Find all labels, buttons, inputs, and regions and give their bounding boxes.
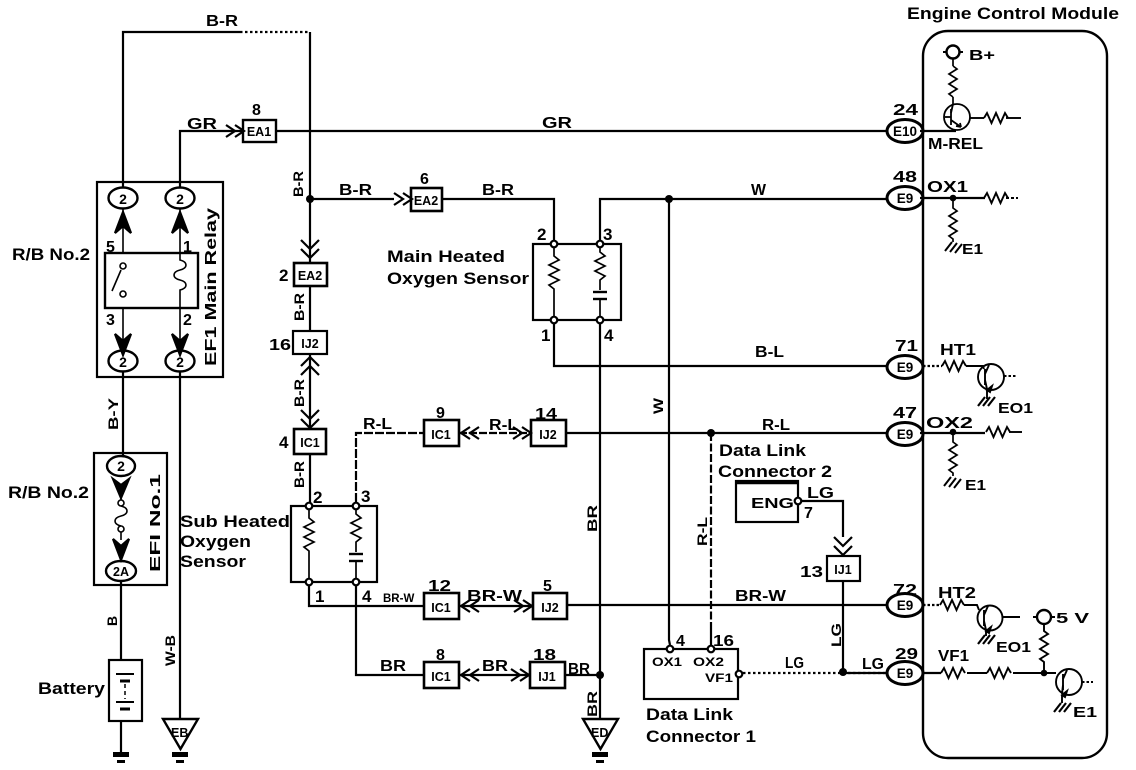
svg-text:IJ2: IJ2 <box>301 337 318 351</box>
svg-text:2: 2 <box>279 266 288 285</box>
relay switch <box>112 263 126 297</box>
DLC1 pin VF1 <box>705 671 742 685</box>
svg-text:2: 2 <box>537 225 546 244</box>
wire VF1 mid <box>967 672 987 674</box>
svg-text:R-L: R-L <box>489 417 518 434</box>
wire BR-W to ECM <box>567 604 888 606</box>
connector IJ2 pin 5 <box>533 578 567 619</box>
wire B-L main sensor pin1 to ECM <box>554 323 888 366</box>
svg-text:B-R: B-R <box>291 461 307 488</box>
relay pin oval 2 bottom-left <box>109 351 138 372</box>
svg-text:5 V: 5 V <box>1056 610 1089 627</box>
wire LG junction to ECM <box>843 672 888 674</box>
svg-text:2: 2 <box>176 191 184 207</box>
svg-text:EA2: EA2 <box>298 269 322 283</box>
svg-text:E1: E1 <box>965 477 986 494</box>
svg-text:R/B No.2: R/B No.2 <box>8 483 89 502</box>
ENG pin 7 <box>795 498 813 522</box>
svg-text:16: 16 <box>713 633 734 650</box>
svg-text:Oxygen Sensor: Oxygen Sensor <box>387 269 529 288</box>
connector IJ2 pin 14 <box>531 406 566 446</box>
ECM connector E9 pin 48 <box>887 169 923 210</box>
connector EA2 pin 6 <box>411 171 442 211</box>
connector arrows into EA2-6 <box>394 193 412 205</box>
svg-text:LG: LG <box>862 656 884 673</box>
junction dot OX2 <box>950 429 957 436</box>
svg-text:4: 4 <box>362 587 372 606</box>
svg-text:18: 18 <box>533 647 556 664</box>
data link connector 1 box <box>644 649 738 699</box>
svg-text:OX2: OX2 <box>693 655 724 669</box>
wire GR to ECM <box>276 130 888 132</box>
ground below EB <box>172 752 188 763</box>
svg-text:2: 2 <box>119 191 127 207</box>
svg-text:4: 4 <box>604 326 614 345</box>
arrow down into bottom-left oval <box>115 334 131 355</box>
svg-text:IJ2: IJ2 <box>539 428 556 442</box>
wire B-R EA2 to IJ2 <box>309 286 311 331</box>
ground triangle ED <box>583 719 618 749</box>
svg-text:OX1: OX1 <box>652 655 682 669</box>
svg-text:BR-W: BR-W <box>467 588 523 605</box>
label Main Heated Oxygen Sensor <box>387 247 529 288</box>
terminal B+ <box>943 46 995 65</box>
svg-text:E9: E9 <box>897 427 914 442</box>
svg-text:6: 6 <box>420 171 429 188</box>
svg-text:EFI No.1: EFI No.1 <box>147 474 164 572</box>
svg-text:W: W <box>650 397 666 414</box>
transistor HT1 <box>978 364 1004 399</box>
connector EA1 pin 8 <box>243 102 276 142</box>
wire BR-W sub pin1 to IC1 <box>309 585 424 606</box>
svg-text:Oxygen: Oxygen <box>180 532 251 551</box>
svg-text:B-Y: B-Y <box>105 397 121 430</box>
label Data Link Connector 1 <box>646 705 756 746</box>
wire OX1 <box>920 197 985 199</box>
connector arrows up below IJ2 <box>301 357 319 375</box>
relay block R/B No.2 outer box <box>97 182 223 377</box>
connector arrows down into IJ1-13 <box>834 537 852 555</box>
DLC1 pin 4 <box>652 633 685 669</box>
svg-text:R-L: R-L <box>363 416 392 433</box>
resistor 5V <box>1040 624 1048 673</box>
wire BR-W between connectors <box>459 605 533 607</box>
wire VF1 to transistor <box>1013 672 1056 674</box>
svg-text:9: 9 <box>436 405 445 422</box>
svg-text:4: 4 <box>279 433 289 452</box>
svg-text:B-R: B-R <box>482 182 515 199</box>
svg-text:48: 48 <box>893 169 917 186</box>
svg-text:VF1: VF1 <box>705 671 733 685</box>
sub sensor pin 1 <box>306 579 325 606</box>
arrow up into top-left oval <box>115 212 131 233</box>
junction dot OX1 <box>950 195 957 202</box>
svg-text:BR-W: BR-W <box>383 593 414 605</box>
svg-text:1: 1 <box>315 587 324 606</box>
wire relay pin2 <box>179 308 181 350</box>
svg-text:B-L: B-L <box>755 344 784 361</box>
svg-text:EA1: EA1 <box>247 125 271 139</box>
EFI No.1 block box <box>94 453 167 585</box>
relay pin oval 2 top-right <box>166 188 195 209</box>
svg-text:EO1: EO1 <box>996 639 1031 656</box>
svg-text:ENG: ENG <box>751 495 794 512</box>
wire B-R down chain <box>309 199 311 263</box>
svg-text:Connector 2: Connector 2 <box>718 462 832 481</box>
wire relay pin3 <box>122 308 124 350</box>
svg-text:HT1: HT1 <box>940 342 976 359</box>
ECM box <box>923 31 1107 758</box>
svg-text:Data Link: Data Link <box>646 705 734 724</box>
svg-text:8: 8 <box>252 102 261 119</box>
main sensor heater resistor <box>549 248 559 317</box>
svg-text:2: 2 <box>119 354 127 370</box>
transistor HT2 <box>978 606 1003 637</box>
EFI pin oval 2A <box>106 561 136 581</box>
wire relay pin5 <box>122 209 124 253</box>
svg-text:Connector 1: Connector 1 <box>646 727 756 746</box>
EFI pin oval 2 <box>107 456 135 476</box>
wire HT1 open end <box>1004 375 1016 377</box>
svg-text:LG: LG <box>807 485 834 502</box>
ground below ED <box>592 752 608 763</box>
junction dot R-L <box>707 429 715 437</box>
svg-text:M-REL: M-REL <box>928 136 983 153</box>
svg-text:2: 2 <box>183 312 192 329</box>
resistor M-REL out <box>984 113 1008 123</box>
svg-text:2: 2 <box>176 354 184 370</box>
svg-text:IJ2: IJ2 <box>541 601 558 615</box>
resistor OX1 <box>984 193 1008 203</box>
wire HT2 emitter right <box>1002 616 1020 618</box>
svg-text:EB: EB <box>171 726 188 740</box>
svg-text:E1: E1 <box>1073 704 1097 721</box>
relay inner box <box>105 253 198 308</box>
main sensor pin 4 <box>597 317 614 345</box>
svg-text:E1: E1 <box>962 241 983 258</box>
svg-text:LG: LG <box>828 623 844 647</box>
fuse EFI No.1 <box>115 498 127 540</box>
wire HT1 <box>923 365 942 367</box>
sub sensor pin 3 <box>353 487 371 509</box>
wire LG from VF1 to ECM <box>743 672 888 674</box>
junction dot VF1 <box>1041 670 1048 677</box>
main sensor element <box>593 248 607 317</box>
svg-text:12: 12 <box>428 578 451 595</box>
wire B-R horizontal to EA2-6 <box>310 198 394 200</box>
svg-text:Data Link: Data Link <box>719 441 807 460</box>
wire BR to junction <box>565 674 600 676</box>
svg-text:B-R: B-R <box>290 171 306 197</box>
svg-text:3: 3 <box>603 225 612 244</box>
wire OX2 <box>920 432 985 434</box>
resistor HT1 <box>942 361 966 371</box>
sub sensor heater resistor <box>304 510 314 579</box>
main sensor pin 3 <box>597 225 613 247</box>
wire W main sensor pin3 to ECM <box>600 199 888 241</box>
wire B+ to resistor <box>952 58 954 66</box>
battery <box>109 660 142 721</box>
svg-text:16: 16 <box>269 337 291 354</box>
svg-text:OX1: OX1 <box>927 179 968 196</box>
connector IJ2 pin 16 <box>269 331 327 354</box>
wire B-R EA2 to main sensor pin2 <box>442 199 554 241</box>
sub sensor pin 2 <box>306 488 323 509</box>
sub sensor pin 4 <box>353 579 372 606</box>
ECM connector E9 pin 71 <box>887 338 923 379</box>
wire BR between connectors <box>459 674 530 676</box>
wire GR from relay to EA1 <box>180 131 243 187</box>
svg-text:W-B: W-B <box>162 635 178 666</box>
connector arrows into IJ2-5 <box>514 600 532 612</box>
wire M-REL open end <box>1006 117 1021 119</box>
svg-text:B+: B+ <box>969 47 995 64</box>
wire OX2 open end <box>1009 431 1022 433</box>
sub sensor element <box>349 510 363 579</box>
svg-text:E9: E9 <box>897 598 914 613</box>
svg-text:IC1: IC1 <box>431 670 451 684</box>
resistor OX2 <box>986 427 1010 437</box>
svg-text:72: 72 <box>893 582 917 599</box>
junction dot B-R <box>306 195 314 203</box>
connector arrows into EA1 <box>226 125 244 137</box>
svg-text:29: 29 <box>895 646 918 663</box>
svg-text:8: 8 <box>436 647 445 664</box>
wire HT1 to transistor <box>966 366 984 369</box>
svg-text:ED: ED <box>591 726 608 740</box>
ECM connector E9 pin 47 <box>887 405 923 446</box>
ECM connector E9 pin 29 <box>887 646 923 685</box>
svg-text:IC1: IC1 <box>300 436 320 450</box>
DLC1 pin 16 <box>693 633 734 669</box>
resistor HT2 <box>940 600 964 610</box>
svg-text:VF1: VF1 <box>938 648 969 665</box>
svg-text:B-R: B-R <box>291 379 307 407</box>
wire W-B relay to EB <box>179 372 181 719</box>
svg-text:W: W <box>751 182 767 199</box>
svg-text:R-L: R-L <box>762 417 790 434</box>
ground EO1 for HT1 <box>978 397 1033 417</box>
label Sub Heated Oxygen Sensor <box>180 512 290 571</box>
wire R-L to ECM <box>566 432 888 434</box>
svg-text:3: 3 <box>361 487 370 506</box>
svg-text:1: 1 <box>541 326 550 345</box>
ECM connector E9 pin 72 <box>887 582 923 617</box>
arrow down into oval 2A <box>113 539 129 560</box>
svg-text:2A: 2A <box>113 565 129 579</box>
svg-text:IC1: IC1 <box>431 428 451 442</box>
junction dot BR <box>596 671 604 679</box>
connector arrows into IJ1-18 <box>511 669 529 681</box>
connector arrows out of IC1-8 <box>461 669 479 681</box>
resistor OX1 to ground <box>949 198 957 242</box>
wire B to battery <box>120 581 122 660</box>
svg-text:E9: E9 <box>897 666 914 681</box>
resistor M-REL pullup <box>949 66 957 97</box>
svg-text:4: 4 <box>676 633 685 650</box>
wire BR sub pin4 to IC1 <box>356 585 424 675</box>
svg-text:EA2: EA2 <box>414 194 438 208</box>
arrow up into top-right oval <box>172 212 188 233</box>
svg-text:BR: BR <box>482 658 509 675</box>
wire B-R top loop <box>123 32 240 187</box>
wire transistor emitter out <box>970 117 984 119</box>
wire OX1 open end <box>1006 197 1018 199</box>
ground E1 for VF1 <box>1054 703 1097 721</box>
label Data Link Connector 2 <box>718 441 832 481</box>
main sensor pin 1 <box>541 317 557 345</box>
transistor M-REL <box>944 104 970 130</box>
svg-text:BR: BR <box>584 505 600 532</box>
svg-text:3: 3 <box>106 312 115 329</box>
svg-text:GR: GR <box>187 116 218 133</box>
ground below battery <box>113 752 129 763</box>
wire R-L sub sensor pin3 to IC1 <box>356 433 424 502</box>
connector IC1 pin 4 <box>279 429 326 454</box>
wire battery to ground <box>120 721 122 753</box>
resistor VF1 a <box>941 668 965 678</box>
svg-text:47: 47 <box>893 405 917 422</box>
connector ENG box <box>736 481 798 522</box>
connector IJ1 pin 18 <box>530 647 565 688</box>
svg-text:5: 5 <box>543 578 552 595</box>
svg-text:71: 71 <box>895 338 918 355</box>
relay pin oval 2 bottom-right <box>166 351 195 372</box>
wire VF1 <box>923 672 941 674</box>
svg-text:2: 2 <box>117 458 125 474</box>
connector IC1 pin 9 <box>424 405 459 446</box>
relay coil <box>174 253 186 308</box>
connector arrows into IJ2-14 <box>513 427 531 439</box>
wire VF1 open end <box>1082 681 1093 683</box>
svg-text:24: 24 <box>893 102 918 119</box>
wire resistor to transistor <box>952 97 954 104</box>
svg-text:13: 13 <box>800 564 823 581</box>
wire R-L vertical to DLC1 <box>710 433 712 630</box>
svg-text:E9: E9 <box>897 191 914 206</box>
connector arrows down into EA2 <box>301 240 319 258</box>
svg-text:BR-W: BR-W <box>735 588 787 605</box>
junction dot W <box>665 195 673 203</box>
wire relay pin1 <box>179 209 181 253</box>
connector arrows out of IC1-12 <box>461 600 479 612</box>
main heated oxygen sensor box <box>533 244 621 320</box>
main sensor pin 2 <box>537 225 557 247</box>
connector IJ1 pin 13 <box>800 556 860 581</box>
resistor VF1 b <box>987 668 1011 678</box>
svg-text:B: B <box>104 616 120 626</box>
ground E1 for OX2 <box>944 477 986 494</box>
ground triangle EB <box>163 719 198 749</box>
ground EO1 for HT2 <box>978 635 1031 656</box>
arrow down into fuse <box>113 479 129 498</box>
junction dot LG <box>839 668 847 676</box>
svg-text:EO1: EO1 <box>998 400 1033 417</box>
resistor OX2 to ground <box>949 432 957 476</box>
svg-text:E9: E9 <box>897 360 914 375</box>
svg-text:7: 7 <box>804 505 813 522</box>
connector arrows down into IC1 <box>301 410 319 428</box>
svg-text:Sub Heated: Sub Heated <box>180 512 290 531</box>
svg-text:B-R: B-R <box>291 293 307 321</box>
ECM connector E10 pin 24 <box>887 102 923 143</box>
svg-text:2: 2 <box>313 488 322 507</box>
svg-text:Main Heated: Main Heated <box>387 247 505 266</box>
connector IC1 pin 12 <box>424 578 459 619</box>
ground E1 for OX1 <box>945 241 983 258</box>
svg-text:GR: GR <box>542 115 573 132</box>
wire HT2 <box>923 604 940 606</box>
relay pin oval 2 top-left <box>109 188 138 209</box>
svg-text:E10: E10 <box>893 124 917 139</box>
svg-text:OX2: OX2 <box>926 415 973 432</box>
svg-text:IJ1: IJ1 <box>538 670 555 684</box>
svg-text:Battery: Battery <box>38 679 106 698</box>
wire B-R IJ2 to IC1 <box>309 354 311 429</box>
arrow down into bottom-right oval <box>172 334 188 355</box>
wire E10 to transistor <box>920 130 956 132</box>
wire HT2 to transistor <box>964 605 979 610</box>
svg-text:BR: BR <box>380 658 407 675</box>
svg-text:R/B No.2: R/B No.2 <box>12 245 90 264</box>
wire LG IJ1 to junction <box>842 581 844 672</box>
svg-text:BR: BR <box>584 691 600 717</box>
svg-text:B-R: B-R <box>206 13 239 30</box>
wire B-R IC1 to sub sensor <box>309 454 311 506</box>
wire B-Y relay to EFI <box>122 372 124 455</box>
svg-text:IJ1: IJ1 <box>834 563 851 577</box>
wire W vertical to DLC1 <box>669 199 670 645</box>
wire LG from ENG <box>802 501 843 537</box>
wire BR to ED <box>599 675 601 719</box>
wire R-L between connectors <box>459 432 531 434</box>
svg-text:IC1: IC1 <box>431 601 451 615</box>
svg-text:R-L: R-L <box>694 516 710 546</box>
svg-text:14: 14 <box>535 406 557 423</box>
svg-text:EF1 Main Relay: EF1 Main Relay <box>203 208 220 366</box>
terminal 5V <box>1033 610 1089 627</box>
svg-text:Sensor: Sensor <box>180 552 246 571</box>
svg-text:LG: LG <box>785 655 804 672</box>
connector arrows out of IC1-9 <box>461 427 479 439</box>
wire BR main sensor pin4 down <box>599 323 601 675</box>
sub heated oxygen sensor box <box>291 506 377 582</box>
svg-text:Engine Control Module: Engine Control Module <box>907 5 1119 23</box>
transistor VF1 <box>1056 669 1082 703</box>
connector EA2 pin 2 <box>279 263 327 286</box>
svg-text:B-R: B-R <box>339 182 373 199</box>
connector IC1 pin 8 <box>424 647 459 688</box>
